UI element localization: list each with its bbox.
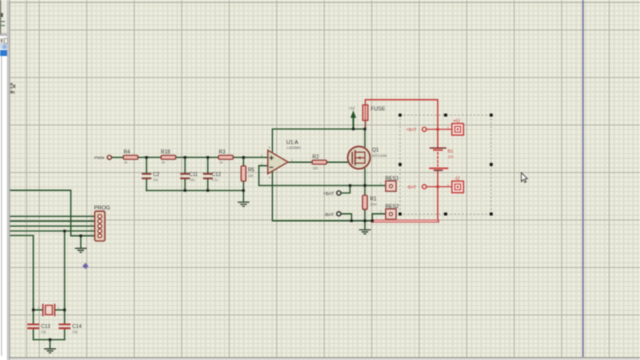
wire C13 bottom lead (32, 329, 34, 340)
capacitor C13 (28, 324, 50, 334)
terminal -BAT (red, battery side) (407, 185, 452, 190)
list panel left border (1, 56, 2, 356)
svg-text:R3: R3 (219, 150, 226, 156)
svg-text:+U: +U (453, 118, 460, 124)
ground near R5 (238, 202, 249, 206)
svg-text:U1:A: U1:A (286, 140, 298, 146)
transistor Q1 (348, 146, 388, 168)
svg-text:LM358N: LM358N (287, 146, 301, 150)
resistor R1 (363, 195, 377, 209)
svg-text:+12: +12 (349, 106, 355, 110)
wire R1 leads (364, 186, 366, 230)
svg-text:IRFZ44N: IRFZ44N (372, 154, 387, 158)
wire op-amp inverting stub and feedback (259, 166, 365, 186)
node junction dots red net (436, 128, 439, 188)
wire tagged pink bottom (372, 220, 437, 223)
wire crystal ground drop (49, 340, 51, 349)
svg-text:-U: -U (454, 176, 460, 182)
svg-text:12p: 12p (41, 330, 47, 334)
left sidebar (0, 0, 7, 360)
svg-text:10m: 10m (370, 203, 377, 207)
terminal RES2 (380, 204, 399, 219)
svg-text:R5: R5 (248, 168, 255, 174)
wire R4 to R18 (138, 156, 161, 158)
wire PROG pin2 (10, 220, 95, 222)
wire crystal left net (10, 236, 34, 324)
capacitor C11 (181, 172, 198, 182)
crystal X1 (38, 304, 60, 315)
red wire battery bottom (437, 170, 439, 220)
svg-text:FUSE: FUSE (371, 106, 386, 112)
svg-text:2: 2 (38, 306, 40, 310)
edge glyph fragments (10, 83, 15, 94)
svg-text:1k: 1k (124, 161, 128, 165)
node junction dots green nets (32, 128, 374, 341)
svg-text:1k: 1k (219, 161, 223, 165)
wire PWM to R4 (112, 156, 124, 158)
wire +BAT terminal riser (341, 186, 350, 194)
svg-text:-BAT: -BAT (407, 185, 417, 190)
wire op-amp output to R2 (288, 161, 312, 163)
svg-text:1: 1 (58, 306, 60, 310)
svg-text:100: 100 (248, 174, 254, 178)
svg-text:R18: R18 (161, 150, 171, 156)
op-amp U1 (261, 140, 301, 179)
wire filter bottom rail (147, 190, 244, 192)
power +12 arrow (349, 106, 356, 117)
terminal -U (447, 176, 463, 193)
wire PROG pin1 (10, 215, 95, 217)
svg-text:100: 100 (313, 166, 319, 170)
wire node to RES1 (365, 185, 386, 187)
wire PROG pin5 L-path (10, 190, 95, 236)
svg-text:12V: 12V (448, 155, 455, 159)
wire PROG pin3 (10, 225, 95, 227)
svg-text:4: 4 (269, 175, 271, 179)
selection marquee handle dots (399, 114, 493, 216)
terminal +BAT (dark, near op-amp) (323, 191, 341, 196)
svg-text:PWM: PWM (94, 155, 104, 160)
wire C12 leads (207, 157, 209, 190)
wire PROG ground tap (80, 236, 82, 248)
resistor R4 (123, 150, 138, 165)
wire PROG pin4 (10, 230, 95, 232)
svg-text:R2: R2 (312, 155, 319, 161)
wire op-amp V+ pin and +12 rail (272, 129, 365, 153)
wire crystal right net (64, 231, 66, 324)
svg-text:+BAT: +BAT (406, 127, 417, 132)
mouse cursor (521, 173, 527, 183)
resistor R18 (161, 150, 176, 165)
wire C14 bottom lead (64, 329, 66, 340)
svg-text:1: 1 (380, 209, 382, 213)
battery B1 (430, 148, 454, 170)
svg-text:Q1: Q1 (372, 147, 379, 153)
selection marquee dotted box (400, 115, 491, 214)
red wire fuse top to battery (365, 100, 437, 148)
svg-text:RES2: RES2 (385, 204, 399, 210)
terminal PWM (94, 155, 111, 160)
svg-text:-BAT: -BAT (324, 212, 334, 217)
blue selected row (0, 50, 7, 56)
svg-text:1: 1 (380, 181, 382, 185)
wire Q1 source to node (364, 169, 366, 186)
wire R3 to op-amp +input (233, 156, 267, 158)
terminal +BAT (red, battery side) (406, 127, 452, 132)
svg-text:RES1: RES1 (385, 176, 399, 182)
ground at crystal (45, 349, 56, 353)
splitter bar (7, 0, 10, 360)
svg-text:10u: 10u (153, 178, 159, 182)
wire C11 leads (184, 157, 186, 190)
terminal RES1 (380, 176, 399, 191)
toolbar icons row (0, 38, 7, 44)
connector PROG (91, 205, 111, 241)
svg-text:12p: 12p (72, 330, 78, 334)
terminal -BAT (dark, near op-amp) (324, 212, 341, 217)
wire crystal bottom rail (33, 339, 64, 341)
wire R18 to R3 (176, 156, 219, 158)
fuse FUSE (363, 100, 386, 129)
svg-text:PROG: PROG (94, 205, 110, 211)
wire R2 to Q1 gate (327, 161, 349, 163)
capacitor C2 (143, 172, 160, 182)
svg-text:10u: 10u (190, 178, 196, 182)
origin marker diamond (82, 263, 88, 269)
resistor R2 (312, 155, 327, 171)
wire R5 leads (243, 157, 245, 201)
svg-text:+BAT: +BAT (323, 191, 334, 196)
wire crystal right branch (55, 309, 65, 311)
resistor R3 (219, 150, 234, 165)
wire Q1 drain (364, 129, 366, 147)
terminal +U (447, 118, 463, 135)
bottom window edge band (0, 356, 640, 359)
partial selection icons (0, 44, 7, 49)
capacitor C14 (60, 324, 82, 334)
wire RES2 stub (372, 214, 385, 221)
resistor R5 (241, 166, 255, 181)
svg-text:R4: R4 (124, 150, 131, 156)
wire +12 arrow drop (352, 118, 354, 129)
overview mini window (0, 0, 7, 36)
capacitor C12 (204, 172, 221, 182)
wire crystal left branch (33, 309, 43, 311)
svg-text:0.1u: 0.1u (212, 178, 218, 182)
ground at PROG (76, 248, 87, 252)
svg-text:8: 8 (269, 145, 271, 149)
wire C2 leads (146, 157, 148, 190)
wire op-amp V- pin and bottom rail (272, 171, 372, 221)
svg-text:1k: 1k (162, 161, 166, 165)
sheet border line (582, 0, 584, 360)
ground below R1 (360, 230, 371, 234)
svg-text:B1: B1 (448, 149, 454, 155)
wire -BAT terminal drop (341, 214, 352, 221)
